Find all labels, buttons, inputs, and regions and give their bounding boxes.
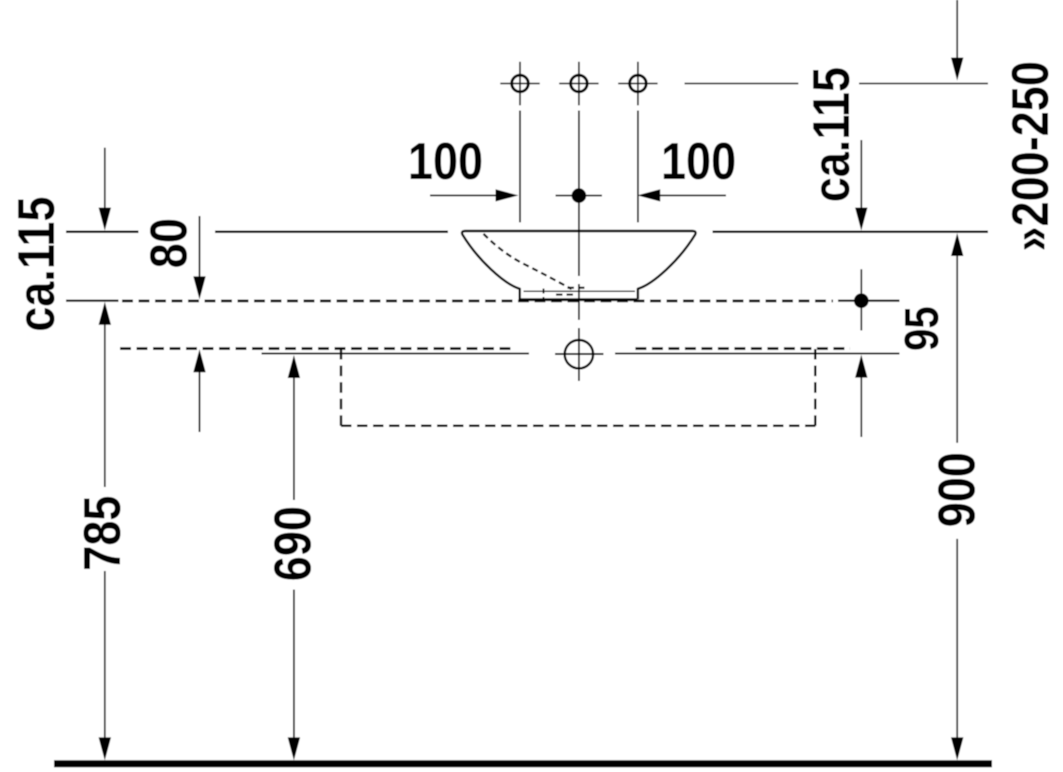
tap level line right: [685, 83, 989, 85]
svg-text:80: 80: [141, 218, 198, 268]
dim line 100 right: [657, 194, 726, 196]
tap hole circle right: [618, 62, 657, 106]
95 up arrow: [855, 355, 867, 378]
counter line solid left: [66, 300, 119, 302]
center reference dot: [572, 188, 587, 203]
svg-text:690: 690: [265, 506, 322, 581]
svg-text:»200-250: »200-250: [1002, 61, 1059, 251]
drain circle: [565, 340, 593, 368]
basin base bottom: [519, 298, 638, 301]
basin hidden drain curve: [484, 234, 572, 289]
floor line: [54, 760, 992, 767]
basin outline: [462, 231, 696, 299]
rim level line: [66, 231, 988, 233]
svg-text:100: 100: [661, 133, 736, 190]
dim line 100 left: [430, 194, 499, 196]
extension line below left circle: [519, 111, 521, 223]
900 dim line: [951, 233, 963, 256]
siphon level line: [262, 353, 900, 355]
counter line solid right: [838, 300, 900, 302]
counter dot right: [854, 293, 869, 308]
svg-text:900: 900: [929, 452, 986, 527]
basin inner foot line: [524, 290, 636, 292]
top right down arrow 200-250: [956, 0, 958, 62]
tap hole circle center: [559, 62, 598, 106]
extension line below right circle: [637, 111, 639, 223]
690 dim line: [288, 355, 300, 378]
furniture dashed rectangle: [340, 349, 342, 426]
drain hidden marks: [568, 287, 587, 289]
svg-text:785: 785: [74, 496, 131, 571]
tap hole circle left: [500, 62, 539, 106]
counter line dashed: [122, 300, 833, 303]
80 down arrow: [199, 216, 201, 281]
svg-text:95: 95: [896, 306, 949, 351]
svg-text:100: 100: [408, 133, 483, 190]
785 dim line: [104, 313, 106, 487]
svg-text:ca.115: ca.115: [803, 67, 860, 202]
centerline segments: [578, 111, 580, 381]
80 up arrow: [193, 349, 205, 372]
svg-text:ca.115: ca.115: [8, 196, 65, 331]
dashed shelf line: [120, 347, 514, 350]
ca.115 right down arrow: [860, 140, 862, 212]
ca.115 left down arrow: [104, 148, 106, 212]
